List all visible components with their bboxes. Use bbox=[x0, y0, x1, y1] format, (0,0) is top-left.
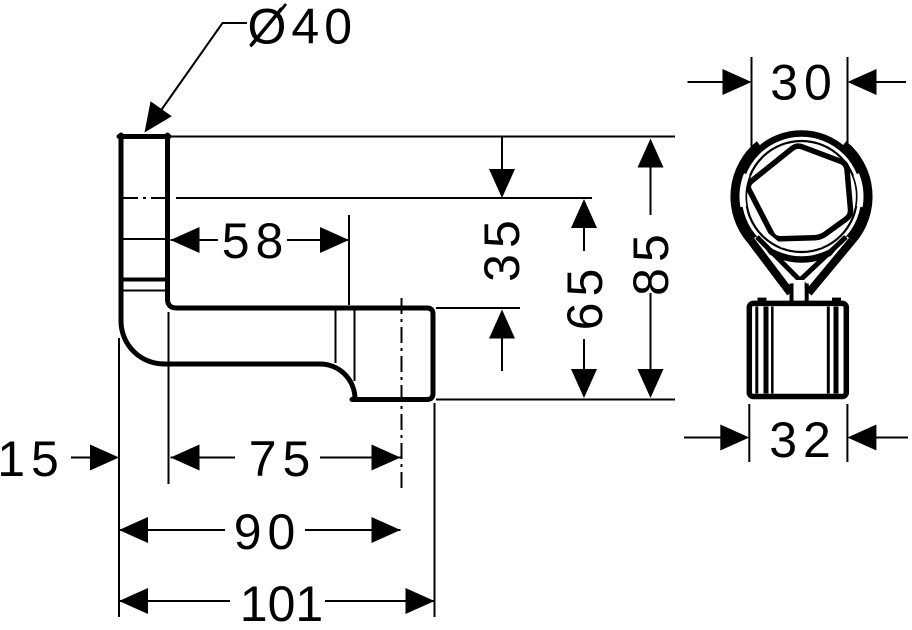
svg-text:32: 32 bbox=[769, 412, 837, 468]
white notch at hexagon bottom-left bbox=[766, 233, 783, 247]
extension line x=434.5 for dim 101 bbox=[434, 403, 436, 617]
diameter symbol slash overlay bbox=[251, 4, 287, 47]
cylinder top reference line bbox=[436, 307, 520, 309]
wall plate outline (vertical bar of L-bracket) bbox=[119, 135, 427, 400]
axis centerline in wall plate (dash-dot) bbox=[122, 197, 168, 199]
white slit between arm and hexagon, right bbox=[856, 174, 860, 206]
svg-text:65: 65 bbox=[557, 263, 613, 331]
white notch at hexagon bottom-right bbox=[820, 233, 837, 247]
dim 101 right arrow bbox=[406, 588, 435, 614]
dim 75 right arrow bbox=[372, 445, 401, 471]
dim 30 left tail bbox=[688, 81, 727, 83]
dim 58 right arrow bbox=[320, 227, 349, 253]
base plate right nub bbox=[832, 298, 841, 302]
dim 32 left tail bbox=[684, 437, 724, 439]
dim 15 arrow bbox=[90, 445, 119, 471]
dim 75 line bbox=[171, 457, 401, 459]
dim 32 right tail bbox=[873, 437, 908, 439]
base inner line right 2 bbox=[834, 307, 839, 394]
leader arrowhead bbox=[145, 101, 172, 132]
svg-text:35: 35 bbox=[474, 214, 530, 282]
svg-text:30: 30 bbox=[770, 55, 838, 111]
white slit between arm and hexagon, left bbox=[743, 174, 747, 206]
svg-text:58: 58 bbox=[222, 213, 290, 269]
stem right wall bbox=[805, 284, 809, 304]
dim 90 right arrow bbox=[372, 517, 401, 543]
extension line x=168.5 for dim 75 bbox=[168, 312, 170, 484]
base inner line left 3 bbox=[771, 307, 774, 394]
wall plate inner line (thin, lower) bbox=[121, 290, 168, 292]
dim 32 left arrow bbox=[720, 425, 749, 451]
ring inner circle (thin) bbox=[746, 141, 857, 252]
dim 32 left extension line bbox=[748, 404, 750, 462]
dim 75 left arrow bbox=[171, 445, 200, 471]
cylinder axis centerline (dash-dot vertical) bbox=[401, 298, 403, 490]
stem left wall bbox=[790, 284, 794, 304]
dim 101 line bbox=[119, 600, 435, 602]
arm inner edge left (crossing) bbox=[757, 237, 811, 291]
dim 15 tail bbox=[71, 457, 92, 459]
svg-text:101: 101 bbox=[240, 576, 323, 630]
ring outer circle bbox=[739, 134, 865, 260]
holder arm right (arc hugging ring) bbox=[844, 144, 869, 240]
holder arm left (arc hugging ring) bbox=[734, 144, 759, 240]
dim 90 left arrow bbox=[119, 517, 148, 543]
bottom reference line bbox=[436, 399, 675, 401]
base plate left nub bbox=[758, 298, 767, 302]
extension line x=119 for dims 90/101 bbox=[118, 338, 120, 617]
dim 30 right arrow bbox=[848, 69, 877, 95]
holder arm left lower white casing bbox=[751, 241, 791, 294]
dim 58 left arrow bbox=[171, 227, 200, 253]
base plate (front view) bbox=[749, 303, 846, 396]
base inner line right 1 bbox=[827, 307, 830, 394]
arm inner edge right (crossing) bbox=[789, 237, 847, 291]
arm/cylinder joint line 2 bbox=[354, 311, 356, 382]
holder arm right lower white casing bbox=[809, 241, 853, 294]
dim 30 right tail bbox=[873, 81, 906, 83]
dim 30 right extension line bbox=[847, 57, 849, 151]
svg-text:75: 75 bbox=[249, 431, 317, 487]
dim 65 line and arrows bbox=[583, 222, 585, 374]
base inner line left 1 bbox=[755, 307, 758, 394]
top reference line bbox=[170, 136, 675, 138]
base inner line left 2 bbox=[764, 307, 769, 394]
holder arm right lower bbox=[809, 241, 853, 294]
wall plate inner line (thin, upper) bbox=[121, 238, 168, 240]
stem interior (white) bbox=[794, 280, 805, 303]
dim 32 right arrow bbox=[847, 425, 876, 451]
holder arm left lower bbox=[751, 241, 791, 294]
svg-text:85: 85 bbox=[623, 228, 679, 296]
extension line x=349 for dim 58 bbox=[348, 215, 350, 305]
leader line of diameter callout bbox=[150, 23, 247, 126]
roll cylinder (side view rectangle) bbox=[352, 308, 433, 400]
svg-text:90: 90 bbox=[234, 504, 302, 560]
axis extension line to right bbox=[176, 197, 592, 199]
dim 35 upper arrow (pointing down) bbox=[501, 137, 503, 172]
dim 30 left extension line bbox=[751, 57, 753, 151]
svg-text:Ø40: Ø40 bbox=[248, 0, 358, 55]
inner hexagon (spring clip) bbox=[748, 146, 850, 239]
arm/cylinder joint line 1 bbox=[335, 311, 337, 364]
svg-text:15: 15 bbox=[0, 431, 65, 487]
dim 85 line and arrows bbox=[650, 160, 652, 374]
dim 90 line bbox=[119, 529, 401, 531]
dim 101 left arrow bbox=[119, 588, 148, 614]
dim 32 right extension line bbox=[846, 404, 848, 462]
wall plate inner line (thick) bbox=[121, 278, 168, 282]
dim 58 line bbox=[171, 239, 350, 241]
dim 35 lower arrow (pointing up) bbox=[501, 335, 503, 371]
dim 30 left arrow bbox=[723, 69, 752, 95]
